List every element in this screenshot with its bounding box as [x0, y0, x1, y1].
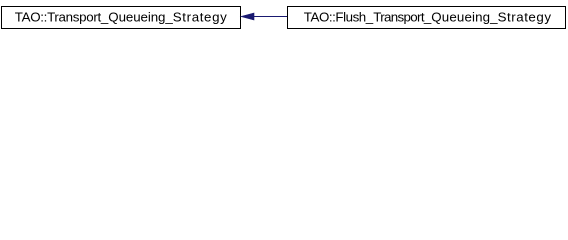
node TAO::Transport_Queueing_Strategy (base class box) — [2, 7, 241, 29]
svg-text:TAO::Transport_Queueing_Strate: TAO::Transport_Queueing_Strategy — [15, 10, 227, 25]
svg-text:TAO::Flush_Transport_Queueing_: TAO::Flush_Transport_Queueing_Strategy — [304, 10, 552, 25]
wire inheritance edge line — [254, 16, 288, 18]
node arrowhead pointing to base class — [241, 13, 254, 20]
node TAO::Flush_Transport_Queueing_Strategy (derived class box) — [288, 7, 566, 29]
